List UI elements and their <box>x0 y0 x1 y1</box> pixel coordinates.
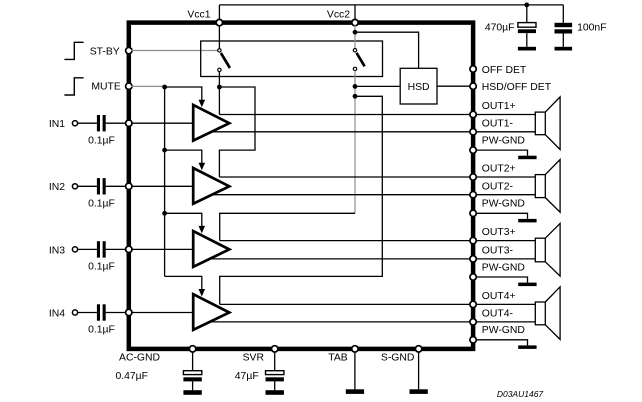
ground (S-GND) <box>410 389 428 394</box>
ground (SVR) <box>266 390 284 395</box>
switch SW1 (ST-BY) <box>218 49 230 72</box>
wire Vcc1 to SW1 <box>218 25 220 48</box>
switch block outline <box>201 41 383 77</box>
pin OUT3- <box>470 246 513 263</box>
pin TAB <box>328 346 358 364</box>
wire OUT1+ <box>219 114 470 116</box>
wire ST-BY to switch SW1 <box>131 50 218 52</box>
speaker LS1 <box>476 97 560 150</box>
wire IN2 to amplifier A2 <box>131 185 192 187</box>
svg-text:IN2: IN2 <box>49 182 65 193</box>
op-amp A1 <box>193 105 229 141</box>
wire S-GND to ground <box>418 351 420 389</box>
svg-text:PW-GND: PW-GND <box>482 325 525 336</box>
pin OUT1- <box>470 119 513 136</box>
svg-text:OFF DET: OFF DET <box>482 65 527 76</box>
wire SW2 bus Z-path to OUT3+ <box>220 213 355 240</box>
speaker LS4 <box>476 287 560 340</box>
wire OUT2- <box>212 194 471 196</box>
wire mute branch to amplifier A1 <box>165 87 206 107</box>
node A (SW1 junction) <box>217 85 222 90</box>
wire node C to HSD left <box>355 85 400 87</box>
node IN4 terminal <box>49 308 78 319</box>
pin HSD/OFF DET <box>470 82 552 93</box>
op-amp A2 <box>193 168 229 204</box>
node supply junction <box>524 3 529 8</box>
switch SW2 (MUTE) <box>353 49 364 71</box>
svg-text:MUTE: MUTE <box>91 82 121 93</box>
svg-text:IN4: IN4 <box>49 308 65 319</box>
node C (HSD input junction) <box>353 84 358 89</box>
wire IN3 to amplifier A3 <box>131 248 192 250</box>
svg-text:PW-GND: PW-GND <box>482 262 525 273</box>
svg-text:Vcc2: Vcc2 <box>327 10 350 21</box>
pin IN2 <box>126 183 132 189</box>
node IN1 terminal <box>49 119 78 130</box>
op-amp A4 <box>193 294 229 330</box>
svg-text:PW-GND: PW-GND <box>482 199 525 210</box>
wire PW-GND 2 to ground <box>476 213 528 219</box>
pin OUT2+ <box>470 163 516 180</box>
pin OUT2- <box>470 181 513 198</box>
wire MUTE to mute bus <box>131 85 163 87</box>
svg-text:OUT2+: OUT2+ <box>482 163 516 174</box>
svg-text:0.1µF: 0.1µF <box>88 262 115 273</box>
pin IN1 <box>126 120 132 126</box>
node mute bus junction 3 <box>162 211 167 216</box>
svg-text:AC-GND: AC-GND <box>119 353 160 364</box>
svg-text:Vcc1: Vcc1 <box>187 10 210 21</box>
figure code D03AU1467 <box>497 389 544 399</box>
pin ST-BY <box>90 46 132 57</box>
pin Vcc2 <box>327 10 358 26</box>
wire mute bus vertical <box>164 87 166 276</box>
capacitor C2 100nF <box>555 5 607 47</box>
svg-text:TAB: TAB <box>328 353 348 364</box>
wire TAB to ground <box>354 351 356 389</box>
svg-text:OUT1+: OUT1+ <box>482 101 516 112</box>
wire IN1 to amplifier A1 <box>131 122 192 124</box>
IC boundary U1 <box>129 23 473 349</box>
node B (Vcc2 to HSD) <box>353 30 358 35</box>
svg-text:PW-GND: PW-GND <box>482 136 525 147</box>
ground (PW-GND 1) <box>518 156 536 160</box>
wire node A Z-path to OUT2+ <box>219 87 255 177</box>
wire PW-GND 4 to ground <box>476 340 528 346</box>
speaker LS3 <box>476 223 560 276</box>
capacitor C6 0.1µF <box>78 304 127 335</box>
svg-text:SVR: SVR <box>243 353 265 364</box>
wire Vcc supply top rail <box>219 5 563 20</box>
pin PW-GND (3) <box>470 262 525 280</box>
wire mute branch to amplifier A3 <box>165 213 206 233</box>
svg-text:0.1µF: 0.1µF <box>88 325 115 336</box>
pin IN4 <box>126 309 132 315</box>
pin S-GND <box>381 346 422 364</box>
wire PW-GND 1 to ground <box>476 150 528 156</box>
wire mute branch to amplifier A2 <box>165 150 206 170</box>
svg-text:IN1: IN1 <box>49 119 65 130</box>
svg-text:OUT2-: OUT2- <box>482 181 513 192</box>
ground (PW-GND 3) <box>518 283 536 287</box>
svg-text:0.1µF: 0.1µF <box>88 199 115 210</box>
wire IN4 to amplifier A4 <box>131 312 192 314</box>
svg-text:OUT4-: OUT4- <box>482 309 513 320</box>
capacitor C4 0.1µF <box>78 178 127 209</box>
node mute bus junction 2 <box>162 148 167 153</box>
svg-text:470µF: 470µF <box>485 23 515 34</box>
capacitor C3 0.1µF <box>78 115 127 146</box>
svg-text:HSD/OFF DET: HSD/OFF DET <box>482 82 552 93</box>
ground (AC-GND) <box>183 390 201 395</box>
svg-text:HSD: HSD <box>408 82 430 93</box>
ground (PW-GND 2) <box>518 219 536 223</box>
svg-text:100nF: 100nF <box>577 23 606 34</box>
ground (PW-GND 4) <box>518 345 536 349</box>
ground (470µF) <box>518 47 536 51</box>
HSD block <box>400 68 437 104</box>
pin OUT3+ <box>470 227 516 244</box>
svg-text:OUT1-: OUT1- <box>482 119 513 130</box>
pin Vcc1 <box>187 10 222 26</box>
op-amp A3 <box>193 231 229 267</box>
svg-text:S-GND: S-GND <box>381 353 414 364</box>
wire SW2 down bus <box>354 71 356 214</box>
svg-text:OUT4+: OUT4+ <box>482 291 516 302</box>
wire HSD to HSD/OFF DET pin <box>437 85 471 87</box>
svg-text:0.47µF: 0.47µF <box>115 371 148 382</box>
svg-text:OUT3+: OUT3+ <box>482 227 516 238</box>
pin OUT4+ <box>470 291 516 308</box>
wire OUT3- <box>212 258 471 260</box>
capacitor C1 470µF <box>485 5 536 47</box>
svg-text:D03AU1467: D03AU1467 <box>497 389 544 399</box>
ST-BY step-signal symbol <box>64 42 83 59</box>
wire node D Z-path to OUT4+ <box>220 96 383 304</box>
pin OFF DET <box>470 65 527 76</box>
pin PW-GND (1) <box>470 136 525 154</box>
wire PW-GND 3 to ground <box>476 277 528 283</box>
wire OUT4+ <box>220 303 471 305</box>
svg-text:IN3: IN3 <box>49 245 65 256</box>
wire mute branch to amplifier A4 <box>165 276 206 296</box>
wire node A down to OUT1+ <box>218 87 220 115</box>
wire node B to HSD top <box>355 32 419 68</box>
wire Vcc2 to SW2 <box>354 25 356 48</box>
wire OUT1- <box>212 131 471 133</box>
node IN2 terminal <box>49 182 78 193</box>
capacitor C5 0.1µF <box>78 241 127 272</box>
svg-text:OUT3-: OUT3- <box>482 246 513 257</box>
wire SW1 down to node A <box>218 72 220 87</box>
wire OUT3+ <box>220 240 471 242</box>
speaker LS2 <box>476 160 560 213</box>
ground (100nF) <box>555 47 573 51</box>
ground (TAB) <box>346 389 364 394</box>
svg-text:0.1µF: 0.1µF <box>88 135 115 146</box>
pin PW-GND (4) <box>470 325 525 343</box>
svg-text:ST-BY: ST-BY <box>90 46 120 57</box>
pin SVR <box>243 346 278 364</box>
node IN3 terminal <box>49 245 78 256</box>
wire OUT2+ <box>219 176 470 178</box>
node mute bus junction 1 <box>162 85 167 90</box>
pin IN3 <box>126 246 132 252</box>
node D (bus branch junction) <box>353 94 358 99</box>
pin AC-GND <box>119 346 196 364</box>
capacitor C8 47µF <box>235 351 284 390</box>
capacitor C7 0.47µF <box>115 351 201 390</box>
pin OUT4- <box>470 309 513 325</box>
svg-text:47µF: 47µF <box>235 371 259 382</box>
pin OUT1+ <box>470 101 516 118</box>
pin MUTE <box>91 82 132 93</box>
pin PW-GND (2) <box>470 199 525 217</box>
MUTE step-signal symbol <box>64 78 83 95</box>
wire OUT4- <box>212 321 471 323</box>
